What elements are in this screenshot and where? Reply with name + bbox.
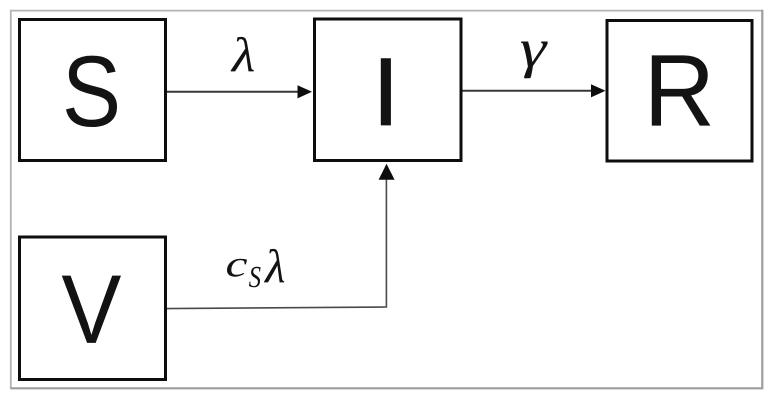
box S: [20, 20, 166, 161]
label c: [227, 259, 247, 277]
wire V elbow horizontal: [167, 307, 386, 309]
label R: [652, 55, 711, 125]
label I: [381, 58, 391, 125]
wire S to I: [167, 91, 299, 93]
wire I to R: [463, 90, 593, 92]
label S: [66, 56, 117, 127]
label lambda: [231, 37, 254, 72]
label V: [62, 276, 121, 343]
arrowhead V to I: [379, 164, 395, 180]
label lambda 2: [264, 249, 284, 283]
label gamma: [521, 42, 548, 79]
label S subscript: [249, 267, 261, 288]
wire V elbow vertical: [385, 179, 387, 308]
arrowhead S to I: [298, 85, 313, 98]
box R: [607, 21, 752, 162]
arrowhead I to R: [591, 84, 606, 97]
box V: [20, 237, 166, 380]
box I: [315, 19, 462, 161]
